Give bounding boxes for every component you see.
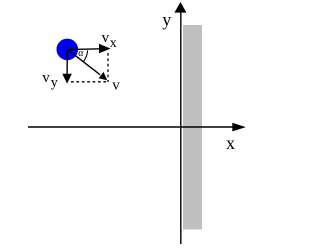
dashed vertical projection line [107, 53, 109, 82]
svg-text:α: α [78, 48, 84, 59]
svg-text:v: v [102, 30, 110, 46]
svg-text:y: y [51, 76, 58, 91]
wall [183, 25, 202, 230]
vector v_x [68, 44, 111, 53]
vector v_y [62, 50, 72, 84]
svg-text:v: v [112, 78, 120, 94]
dashed horizontal projection line [71, 81, 108, 83]
svg-text:x: x [110, 36, 117, 51]
svg-text:v: v [42, 70, 50, 86]
x-axis [28, 123, 246, 132]
angle arc [84, 50, 88, 61]
label v_x [102, 30, 117, 51]
label v_y [42, 70, 58, 91]
svg-text:x: x [226, 133, 235, 153]
ball [57, 39, 79, 61]
vector v (resultant) [68, 50, 108, 81]
svg-text:y: y [162, 9, 171, 29]
y-axis [174, 2, 186, 244]
